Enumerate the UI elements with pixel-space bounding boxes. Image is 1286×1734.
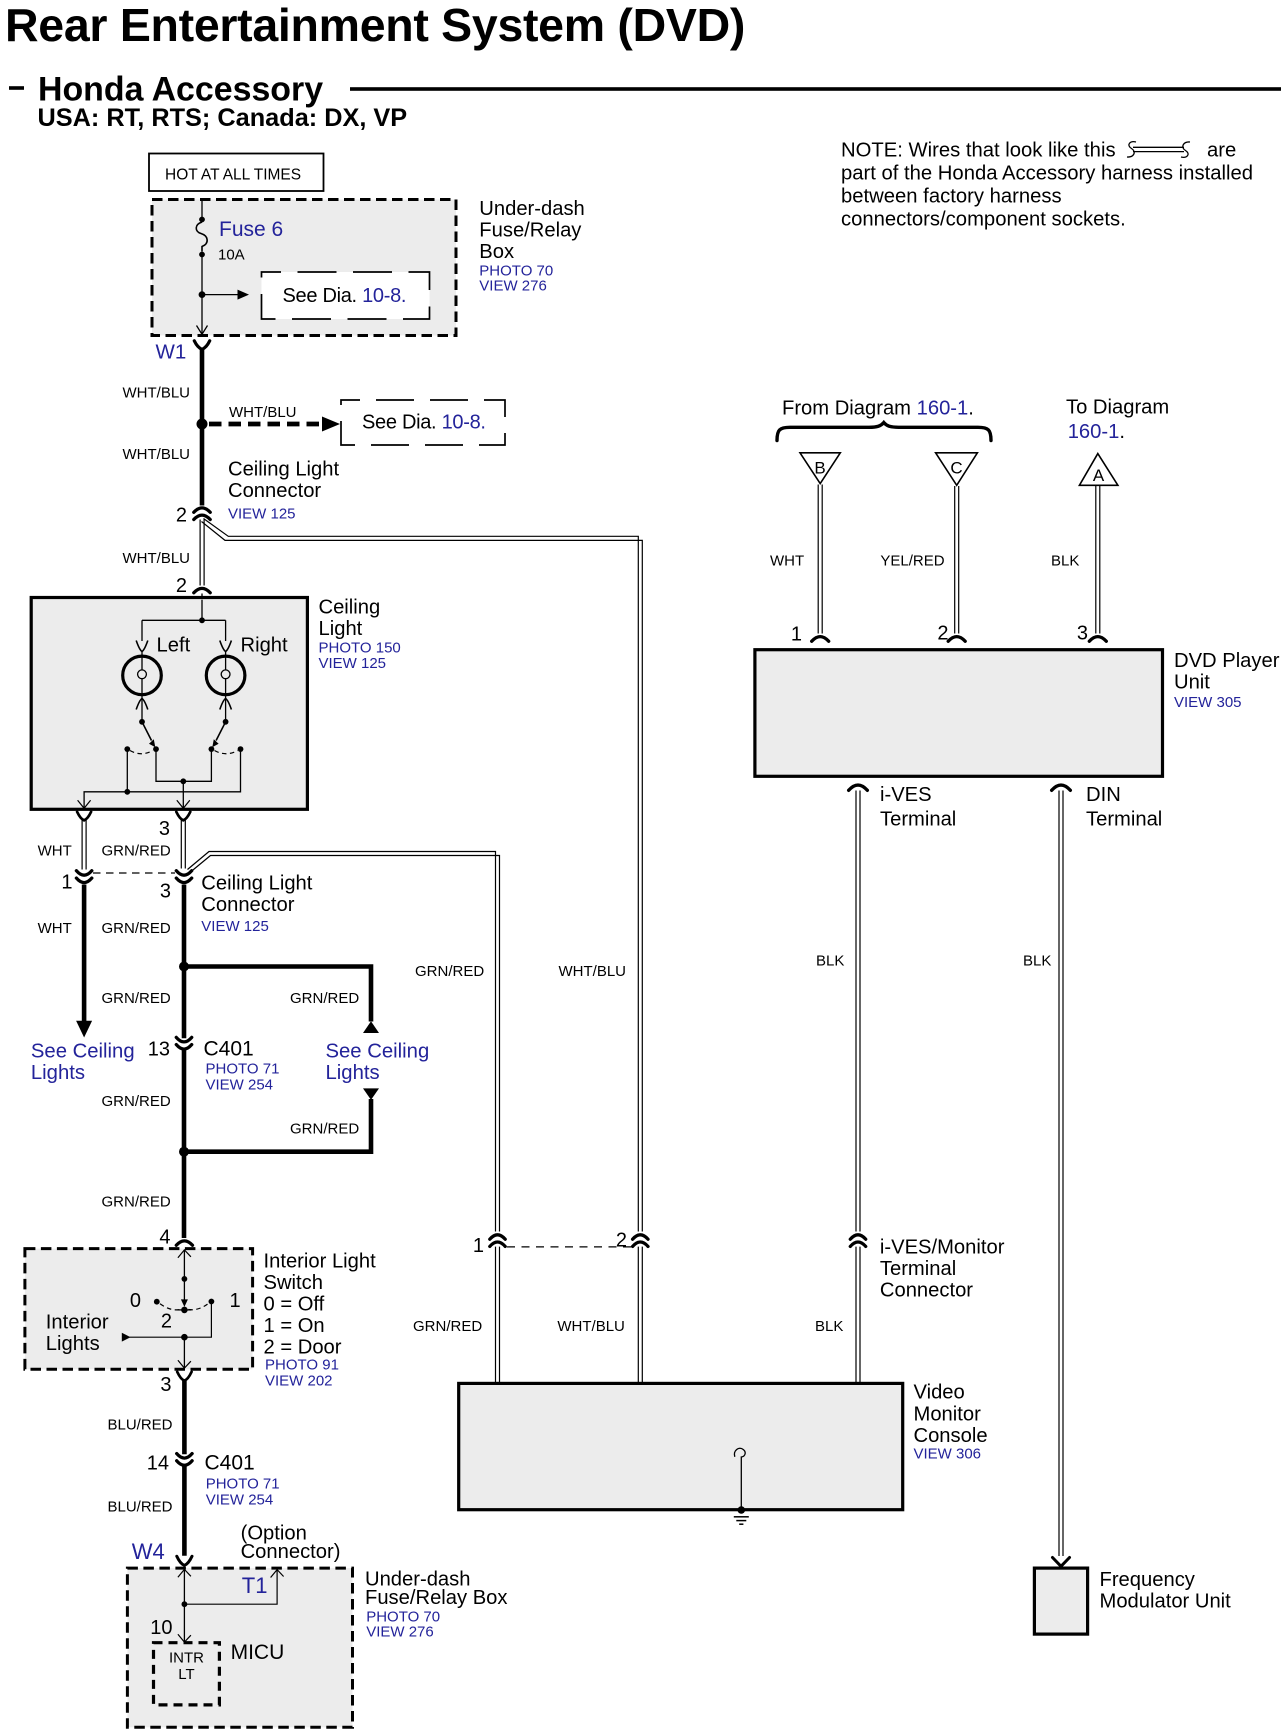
section dash bbox=[9, 86, 24, 90]
frequency modulator unit box bbox=[1034, 1568, 1087, 1634]
svg-text:Connector: Connector bbox=[201, 894, 294, 916]
svg-text:3: 3 bbox=[159, 818, 170, 840]
svg-text:Lights: Lights bbox=[46, 1333, 100, 1355]
svg-text:Unit: Unit bbox=[1174, 672, 1210, 694]
svg-text:GRN/RED: GRN/RED bbox=[290, 990, 359, 1007]
arrowhead WHT see ceiling lights bbox=[76, 1021, 92, 1038]
svg-text:1: 1 bbox=[791, 624, 802, 646]
bulb left bbox=[123, 656, 162, 695]
arrowhead wiper bbox=[181, 1299, 188, 1307]
arrow door input bbox=[122, 1333, 131, 1342]
svg-text:BLK: BLK bbox=[816, 953, 844, 970]
wire outer contacts bus bbox=[84, 749, 240, 808]
svg-text:See Dia. 10-8.: See Dia. 10-8. bbox=[362, 412, 486, 434]
dashed link conn1-conn3 bbox=[93, 872, 175, 874]
dashed link monitor conn 1-2 bbox=[507, 1246, 631, 1248]
svg-text:W4: W4 bbox=[132, 1539, 165, 1564]
svg-text:C401: C401 bbox=[204, 1038, 254, 1061]
node GRN/RED junction upper bbox=[179, 962, 189, 972]
connector C401-14 (double chevron down) bbox=[177, 1454, 192, 1459]
brace from diagram bbox=[777, 423, 991, 441]
svg-text:From Diagram 160-1.: From Diagram 160-1. bbox=[782, 398, 974, 420]
svg-text:Terminal: Terminal bbox=[1086, 808, 1162, 830]
svg-text:VIEW 125: VIEW 125 bbox=[201, 918, 269, 935]
arrow exit pin3 bbox=[177, 800, 190, 808]
connector left bulb bottom bbox=[136, 699, 148, 710]
svg-text:Frequency: Frequency bbox=[1100, 1569, 1196, 1591]
wire bulb feed rail bbox=[142, 619, 226, 621]
svg-text:2: 2 bbox=[616, 1230, 627, 1252]
arrow exit bottom of fuse box bbox=[197, 326, 208, 335]
svg-text:1: 1 bbox=[473, 1235, 484, 1257]
connector dvd-1 (single chevron) bbox=[812, 637, 829, 642]
svg-text:2: 2 bbox=[176, 505, 187, 527]
wire fuse to junction bbox=[201, 255, 203, 295]
svg-text:Interior Light: Interior Light bbox=[264, 1250, 377, 1272]
wire left bulb drop bbox=[141, 620, 143, 641]
DVD player unit box bbox=[755, 650, 1163, 777]
connector W4 symbol bbox=[177, 1556, 192, 1565]
svg-text:1: 1 bbox=[230, 1290, 241, 1312]
svg-text:3: 3 bbox=[160, 881, 171, 903]
arrow entry W4 wire bbox=[178, 1569, 191, 1577]
svg-text:PHOTO 150: PHOTO 150 bbox=[319, 640, 401, 657]
connector sym below switch bbox=[177, 1372, 191, 1381]
connector sym below box left bbox=[77, 812, 91, 821]
node GRN/RED junction lower bbox=[179, 1147, 189, 1157]
node outer bus bbox=[124, 789, 130, 795]
connector sym below box right bbox=[176, 812, 190, 821]
svg-text:PHOTO 71: PHOTO 71 bbox=[206, 1060, 280, 1077]
wire double-line WHT/BLU to ceiling light bbox=[200, 520, 204, 586]
connector monitor-blk (double chevron up) bbox=[850, 1235, 865, 1239]
node T1 junction bbox=[182, 1601, 188, 1607]
svg-text:Video: Video bbox=[914, 1382, 965, 1404]
wire dashed branch to see dia bbox=[209, 422, 324, 427]
wire right bulb drop bbox=[225, 620, 227, 641]
wire double i-VES BLK bbox=[856, 791, 860, 1232]
wire double DIN BLK bbox=[1059, 791, 1063, 1557]
interior light switch box bbox=[25, 1249, 253, 1370]
svg-text:Light: Light bbox=[319, 618, 363, 640]
node right switch common bbox=[223, 719, 229, 725]
svg-text:USA: RT, RTS; Canada: DX, VP: USA: RT, RTS; Canada: DX, VP bbox=[38, 104, 408, 132]
svg-text:YEL/RED: YEL/RED bbox=[880, 553, 944, 570]
wire output to exit bbox=[183, 1337, 185, 1368]
switch arm right bbox=[216, 722, 226, 741]
under-dash fuse/relay box (top) bbox=[152, 200, 456, 336]
svg-text:C401: C401 bbox=[205, 1451, 255, 1474]
svg-text:GRN/RED: GRN/RED bbox=[290, 1121, 359, 1138]
svg-text:A: A bbox=[1093, 466, 1105, 485]
arrow T1 up bbox=[271, 1570, 284, 1578]
wire WHT thick bbox=[82, 885, 87, 1023]
fuse F6 element bbox=[196, 222, 207, 252]
svg-text:Terminal: Terminal bbox=[880, 808, 956, 830]
wire double from B bbox=[818, 485, 1100, 634]
svg-text:1: 1 bbox=[61, 872, 72, 894]
svg-text:10: 10 bbox=[150, 1617, 172, 1639]
see dia 10-8 box 2 bbox=[341, 400, 505, 445]
svg-text:VIEW 305: VIEW 305 bbox=[1174, 694, 1242, 711]
svg-text:WHT/BLU: WHT/BLU bbox=[123, 446, 191, 463]
arrowhead into FM unit bbox=[1053, 1558, 1070, 1567]
ground pigtail inside console bbox=[734, 1448, 745, 1508]
svg-text:are: are bbox=[1207, 140, 1236, 162]
svg-text:3: 3 bbox=[160, 1374, 171, 1396]
connector left bulb top bbox=[136, 641, 148, 652]
svg-text:Fuse 6: Fuse 6 bbox=[219, 218, 283, 241]
note harness symbol bbox=[1127, 142, 1190, 158]
svg-text:i-VES: i-VES bbox=[880, 784, 932, 806]
connector C2 upper (double chevron) bbox=[194, 508, 210, 512]
node left switch common bbox=[139, 719, 145, 725]
wiper bar bbox=[178, 1309, 192, 1311]
under-dash fuse/relay box (bottom) bbox=[127, 1568, 352, 1727]
arrowhead branch bbox=[238, 290, 250, 300]
node inner bus center bbox=[180, 778, 186, 784]
wire to MICU bbox=[183, 1604, 185, 1642]
svg-text:WHT: WHT bbox=[38, 920, 72, 937]
node ceiling light feed bbox=[199, 617, 205, 623]
svg-text:4: 4 bbox=[159, 1226, 170, 1248]
switch travel dashed 0-wiper bbox=[160, 1304, 181, 1310]
svg-text:VIEW 276: VIEW 276 bbox=[479, 278, 547, 295]
svg-text:VIEW 202: VIEW 202 bbox=[265, 1373, 333, 1390]
bulb right bbox=[206, 656, 245, 695]
wire inside ceiling light from entry bbox=[201, 600, 203, 621]
svg-text:C: C bbox=[950, 459, 962, 478]
svg-text:Terminal: Terminal bbox=[880, 1258, 956, 1280]
wire branch to see dia bbox=[202, 294, 238, 296]
svg-text:BLU/RED: BLU/RED bbox=[108, 1417, 173, 1434]
svg-text:WHT: WHT bbox=[38, 843, 72, 860]
svg-text:Fuse/Relay Box: Fuse/Relay Box bbox=[365, 1587, 508, 1609]
switch travel dashed wiper-1 bbox=[188, 1304, 208, 1310]
connector dvd-3 (single chevron) bbox=[1089, 637, 1106, 642]
wire inner contacts bus bbox=[156, 749, 211, 781]
svg-text:3: 3 bbox=[1077, 623, 1088, 645]
HOT AT ALL TIMES box bbox=[149, 154, 324, 192]
wire WHT/BLU branch diagonal from C2 bbox=[202, 519, 643, 1232]
node fuse box junction bbox=[199, 291, 206, 298]
node left contact door bbox=[124, 746, 130, 752]
svg-text:Connector: Connector bbox=[880, 1280, 973, 1302]
section rule bbox=[350, 87, 1281, 91]
connector C2 lower (single chevron) bbox=[194, 588, 210, 592]
svg-text:VIEW 254: VIEW 254 bbox=[206, 1492, 274, 1509]
arrowhead dashed branch bbox=[322, 417, 340, 432]
node left contact on bbox=[153, 746, 159, 752]
svg-text:BLK: BLK bbox=[1051, 553, 1079, 570]
wire feed to wiper bbox=[183, 1279, 185, 1301]
arrow exit pin1 bbox=[78, 800, 91, 808]
arrow entry ceiling light bbox=[195, 600, 209, 607]
svg-text:PHOTO 71: PHOTO 71 bbox=[206, 1476, 280, 1493]
node switch feed bbox=[182, 1276, 188, 1282]
svg-text:Interior: Interior bbox=[46, 1312, 109, 1334]
svg-text:DVD Player: DVD Player bbox=[1174, 650, 1280, 672]
svg-text:See Ceiling: See Ceiling bbox=[31, 1041, 135, 1063]
switch travel dashed right bbox=[215, 751, 238, 754]
svg-text:VIEW 306: VIEW 306 bbox=[914, 1445, 982, 1462]
svg-text:Modulator Unit: Modulator Unit bbox=[1100, 1590, 1232, 1612]
svg-text:Box: Box bbox=[479, 241, 514, 263]
node switch output bbox=[181, 1334, 188, 1341]
svg-text:13: 13 bbox=[148, 1039, 170, 1061]
svg-text:GRN/RED: GRN/RED bbox=[102, 843, 171, 860]
node fuse bottom bbox=[199, 252, 205, 258]
wire BLU/RED thick lower bbox=[182, 1466, 187, 1555]
svg-text:Ceiling Light: Ceiling Light bbox=[201, 873, 312, 895]
svg-text:160-1.: 160-1. bbox=[1068, 421, 1125, 443]
svg-text:Under-dash: Under-dash bbox=[479, 198, 584, 220]
wire GRN/RED trunk thick mid bbox=[182, 1050, 187, 1238]
wire inside to T junction bbox=[183, 1569, 185, 1604]
wire inner bus exit bbox=[182, 781, 184, 808]
connector CL1 (double chevron down) bbox=[76, 871, 91, 876]
node fuse top bbox=[199, 217, 205, 223]
wire switch feed bbox=[183, 1250, 185, 1279]
wire double line to conn1 bbox=[82, 820, 185, 869]
ground node on console edge bbox=[738, 1506, 746, 1514]
svg-text:WHT/BLU: WHT/BLU bbox=[229, 404, 297, 421]
connector right bulb bottom bbox=[220, 699, 232, 710]
svg-text:i-VES/Monitor: i-VES/Monitor bbox=[880, 1236, 1005, 1258]
svg-text:Console: Console bbox=[914, 1425, 988, 1447]
connector monitor-2 (double chevron up) bbox=[633, 1235, 648, 1239]
arrowhead down from see ceiling lights bbox=[363, 1088, 379, 1100]
svg-text:2: 2 bbox=[161, 1311, 172, 1333]
svg-text:14: 14 bbox=[147, 1452, 169, 1474]
svg-text:GRN/RED: GRN/RED bbox=[415, 963, 484, 980]
svg-text:WHT/BLU: WHT/BLU bbox=[559, 963, 627, 980]
svg-text:NOTE: Wires that look like thi: NOTE: Wires that look like this bbox=[841, 140, 1116, 162]
svg-text:10A: 10A bbox=[218, 247, 245, 264]
ceiling light unit box bbox=[31, 598, 307, 810]
svg-text:Ceiling Light: Ceiling Light bbox=[228, 459, 339, 481]
arrow exit switch box bbox=[178, 1360, 191, 1368]
arrow into MICU bbox=[178, 1634, 191, 1642]
wire contact1 to out bbox=[184, 1302, 211, 1338]
svg-text:GRN/RED: GRN/RED bbox=[102, 990, 171, 1007]
svg-text:PHOTO 91: PHOTO 91 bbox=[265, 1356, 339, 1373]
svg-text:MICU: MICU bbox=[231, 1641, 285, 1664]
svg-text:GRN/RED: GRN/RED bbox=[102, 1194, 171, 1211]
switch travel dashed left bbox=[130, 751, 153, 754]
svg-text:WHT/BLU: WHT/BLU bbox=[123, 385, 191, 402]
wire GRN/RED trunk thick upper bbox=[182, 885, 187, 1039]
triangle C bbox=[936, 453, 978, 486]
svg-text:DIN: DIN bbox=[1086, 784, 1121, 806]
node contact 1 bbox=[209, 1299, 215, 1305]
svg-text:Monitor: Monitor bbox=[914, 1403, 982, 1425]
wire trunk WHT/BLU thick bbox=[200, 349, 205, 506]
svg-text:between factory harness: between factory harness bbox=[841, 186, 1062, 208]
wire junction down to W1 bbox=[201, 295, 203, 334]
svg-text:Fuse/Relay: Fuse/Relay bbox=[479, 219, 582, 241]
node trunk junction bbox=[197, 419, 208, 430]
triangle B bbox=[800, 453, 840, 484]
svg-text:connectors/component sockets.: connectors/component sockets. bbox=[841, 208, 1126, 230]
svg-text:VIEW 254: VIEW 254 bbox=[206, 1077, 274, 1094]
wire to T1 bbox=[184, 1570, 277, 1605]
svg-text:GRN/RED: GRN/RED bbox=[102, 1093, 171, 1110]
svg-text:Rear Entertainment System (DVD: Rear Entertainment System (DVD) bbox=[5, 0, 745, 51]
svg-text:VIEW 276: VIEW 276 bbox=[366, 1624, 434, 1641]
arrowhead up see ceiling lights bbox=[363, 1021, 379, 1033]
svg-text:Connector: Connector bbox=[228, 480, 321, 502]
svg-text:GRN/RED: GRN/RED bbox=[102, 920, 171, 937]
connector dvd-2 (single chevron) bbox=[948, 637, 965, 642]
svg-text:WHT/BLU: WHT/BLU bbox=[557, 1318, 625, 1335]
connector DIN terminal (arc) bbox=[1052, 785, 1071, 790]
wire BLU/RED thick upper bbox=[182, 1380, 187, 1454]
connector switch-4 (single chevron) bbox=[176, 1241, 192, 1245]
connector W1 symbol bbox=[194, 341, 209, 350]
wire branch to see ceiling lights right bbox=[184, 967, 371, 1022]
svg-text:WHT: WHT bbox=[770, 553, 804, 570]
svg-text:W1: W1 bbox=[156, 341, 187, 364]
triangle A bbox=[1079, 454, 1118, 486]
MICU INTR LT box bbox=[154, 1643, 220, 1705]
svg-text:Left: Left bbox=[157, 635, 191, 657]
svg-text:BLK: BLK bbox=[815, 1318, 843, 1335]
ground symbol bbox=[734, 1517, 749, 1524]
svg-text:WHT/BLU: WHT/BLU bbox=[123, 550, 191, 567]
node right contact on bbox=[209, 746, 215, 752]
arrow entry switch box bbox=[178, 1250, 191, 1258]
svg-text:LT: LT bbox=[178, 1666, 194, 1683]
svg-text:VIEW 125: VIEW 125 bbox=[228, 506, 296, 523]
svg-text:part of the Honda Accessory ha: part of the Honda Accessory harness inst… bbox=[841, 163, 1253, 185]
svg-text:T1: T1 bbox=[242, 1573, 268, 1598]
svg-text:BLU/RED: BLU/RED bbox=[108, 1499, 173, 1516]
wire GRN/RED branch diagonal from CL3 bbox=[188, 852, 500, 1232]
switch arm left bbox=[142, 722, 152, 741]
svg-text:VIEW 125: VIEW 125 bbox=[319, 655, 387, 672]
svg-text:0: 0 bbox=[130, 1290, 141, 1312]
svg-text:INTR: INTR bbox=[169, 1650, 204, 1667]
svg-text:0 = Off: 0 = Off bbox=[264, 1294, 325, 1316]
svg-text:Lights: Lights bbox=[326, 1062, 380, 1084]
svg-text:HOT AT ALL TIMES: HOT AT ALL TIMES bbox=[165, 167, 301, 184]
svg-text:Right: Right bbox=[241, 635, 289, 657]
svg-text:See Dia. 10-8.: See Dia. 10-8. bbox=[283, 285, 407, 307]
wire branch return bbox=[184, 1099, 371, 1152]
svg-text:B: B bbox=[814, 459, 825, 478]
svg-text:Honda Accessory: Honda Accessory bbox=[38, 71, 323, 109]
node right contact door bbox=[238, 746, 244, 752]
video monitor console box bbox=[459, 1383, 903, 1509]
connector i-VES terminal (arc) bbox=[849, 785, 868, 790]
connector CL3 (double chevron down) bbox=[176, 871, 191, 876]
svg-text:Switch: Switch bbox=[264, 1272, 323, 1294]
svg-text:2: 2 bbox=[176, 575, 187, 597]
svg-text:See Ceiling: See Ceiling bbox=[326, 1041, 430, 1063]
wire door input bbox=[130, 1336, 185, 1338]
wire entry into ceiling light bbox=[201, 594, 203, 621]
node contact 0 bbox=[154, 1299, 160, 1305]
svg-text:BLK: BLK bbox=[1023, 953, 1051, 970]
wire double GRN/RED to console bbox=[496, 1247, 861, 1384]
node wiper pivot bbox=[181, 1307, 188, 1314]
svg-text:1 = On: 1 = On bbox=[264, 1315, 325, 1337]
see dia 10-8 box (inner) bbox=[262, 272, 430, 319]
connector C401-13 (double chevron down) bbox=[176, 1037, 191, 1042]
svg-text:Connector): Connector) bbox=[241, 1541, 341, 1563]
svg-text:Lights: Lights bbox=[31, 1062, 85, 1084]
svg-text:To Diagram: To Diagram bbox=[1066, 397, 1169, 419]
svg-text:GRN/RED: GRN/RED bbox=[413, 1318, 482, 1335]
connector right bulb top bbox=[220, 641, 232, 652]
wire fuse feed bbox=[201, 201, 203, 220]
svg-text:Ceiling: Ceiling bbox=[319, 597, 381, 619]
connector monitor-1 (double chevron up) bbox=[490, 1235, 505, 1239]
